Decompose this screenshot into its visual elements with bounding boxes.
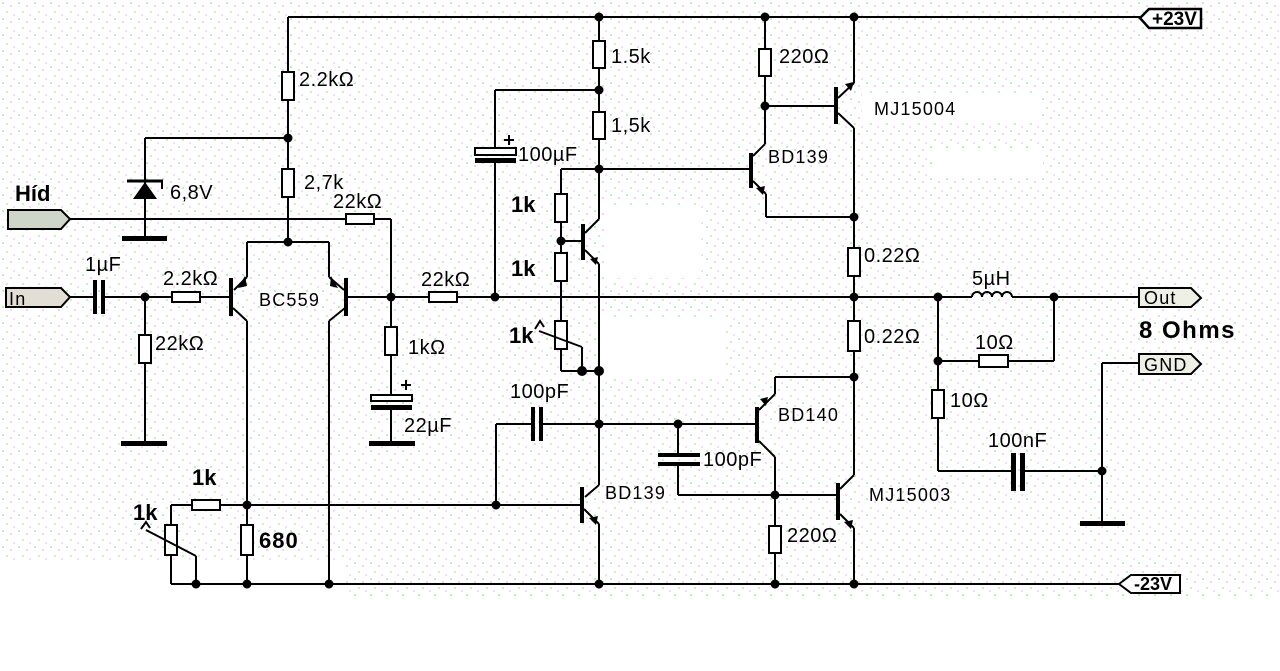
svg-text:MJ15004: MJ15004: [874, 99, 956, 119]
transistor BD140: [755, 377, 854, 495]
svg-text:MJ15003: MJ15003: [869, 485, 951, 505]
resistor 22kΩ middle: [429, 292, 972, 302]
ground bar below zener: [122, 236, 167, 241]
transistor Q3 Vbe multiplier: [561, 169, 599, 371]
resistor R 2.2kΩ (top left): [282, 17, 294, 138]
resistor 220Ω top: [759, 17, 771, 106]
capacitor 100pF feedback: [496, 407, 755, 505]
wire emitter rail BC559 pair: [247, 241, 329, 243]
resistor 1k lower: [555, 253, 567, 321]
power tag +23V: [1140, 9, 1201, 30]
resistor 0.22Ω lower: [848, 297, 860, 377]
potentiometer 1k (bottom left): [141, 505, 196, 584]
svg-text:1k: 1k: [511, 192, 536, 217]
svg-text:2.2kΩ: 2.2kΩ: [299, 69, 354, 91]
resistor 220Ω bottom: [769, 495, 781, 584]
svg-text:220Ω: 220Ω: [779, 46, 829, 68]
resistor 22kΩ input bias: [139, 297, 151, 443]
svg-text:22kΩ: 22kΩ: [333, 191, 382, 213]
ground bar below 22kΩ: [121, 441, 167, 446]
wire top +23V rail: [288, 16, 1140, 18]
wire GND branch: [1102, 363, 1139, 522]
svg-text:1k: 1k: [192, 465, 217, 490]
transistor MJ15003: [836, 377, 854, 584]
svg-text:220Ω: 220Ω: [787, 525, 837, 547]
svg-text:+23V: +23V: [1152, 9, 1197, 30]
connector tag Out: [1139, 288, 1201, 308]
svg-text:-23V: -23V: [1134, 574, 1172, 594]
resistor 1k upper: [555, 194, 567, 253]
svg-text:0.22Ω: 0.22Ω: [864, 245, 920, 267]
svg-text:8 Ohms: 8 Ohms: [1139, 317, 1236, 344]
svg-text:1.5k: 1.5k: [611, 46, 651, 68]
svg-text:22µF: 22µF: [404, 415, 452, 437]
resistor 1kΩ: [385, 297, 397, 395]
wire MJ15004 base: [765, 105, 834, 107]
resistor 1.5k: [593, 17, 605, 90]
wire Vbe emitter down: [598, 371, 600, 424]
svg-text:GND: GND: [1144, 355, 1188, 375]
wire bottom -23V rail: [171, 583, 1119, 585]
svg-text:In: In: [9, 289, 26, 309]
svg-text:Híd: Híd: [15, 181, 50, 206]
svg-text:100µF: 100µF: [518, 144, 578, 166]
transistor BD139 top driver: [749, 106, 854, 217]
svg-text:100nF: 100nF: [988, 430, 1047, 452]
wire main signal line: [391, 296, 429, 298]
svg-text:10Ω: 10Ω: [950, 390, 989, 412]
connector tag Híd: [8, 210, 70, 229]
connector tag GND: [1139, 354, 1201, 375]
resistor 1,5k: [593, 90, 605, 169]
capacitor 1µF: [70, 280, 172, 314]
transistor MJ15004: [834, 17, 854, 217]
resistor 0.22Ω upper: [848, 217, 860, 297]
resistor 1k horizontal (bottom left): [171, 500, 580, 510]
ground bar right: [1080, 521, 1125, 526]
wire node to zener: [145, 137, 288, 139]
resistor 10Ω horizontal: [938, 297, 1054, 390]
capacitor 100nF: [938, 453, 1102, 491]
svg-text:22kΩ: 22kΩ: [421, 269, 470, 291]
svg-text:0.22Ω: 0.22Ω: [864, 326, 920, 348]
transistor Q4 BD139 VAS: [580, 424, 599, 584]
wire Híd line: [70, 218, 346, 220]
svg-text:5µH: 5µH: [972, 268, 1011, 290]
connector tag In: [6, 288, 70, 309]
wire to Out: [1012, 296, 1139, 298]
svg-text:680: 680: [259, 528, 299, 553]
svg-text:Out: Out: [1144, 288, 1177, 308]
resistor 680: [241, 505, 253, 584]
transistor Q1 BC559 left: [229, 242, 247, 505]
svg-text:6,8V: 6,8V: [170, 182, 213, 204]
capacitor 22µF polar: [371, 380, 412, 442]
transistor Q2 BC559 right: [329, 242, 391, 584]
svg-text:1k: 1k: [509, 323, 534, 348]
capacitor 100µF: [475, 90, 598, 297]
potentiometer 1k middle: [535, 321, 599, 371]
svg-text:1kΩ: 1kΩ: [408, 337, 446, 359]
svg-text:1k: 1k: [133, 500, 158, 525]
resistor 10Ω vertical: [932, 390, 944, 471]
power tag -23V: [1119, 574, 1180, 594]
svg-text:1k: 1k: [511, 256, 536, 281]
ground bar below 22µF: [369, 441, 415, 446]
resistor 2.2kΩ series input: [172, 292, 229, 302]
svg-text:BC559: BC559: [259, 290, 320, 310]
svg-text:2.2kΩ: 2.2kΩ: [163, 268, 218, 290]
svg-text:BD139: BD139: [605, 483, 666, 503]
zener diode 6.8V: [127, 138, 163, 238]
capacitor 100pF VAS: [658, 424, 836, 495]
svg-text:10Ω: 10Ω: [975, 332, 1014, 354]
svg-text:BD139: BD139: [768, 147, 829, 167]
resistor 22kΩ feedback: [346, 214, 391, 297]
svg-text:100pF: 100pF: [510, 381, 569, 403]
svg-text:1µF: 1µF: [85, 254, 121, 276]
svg-text:1,5k: 1,5k: [611, 115, 651, 137]
svg-text:22kΩ: 22kΩ: [155, 333, 204, 355]
inductor 5µH: [972, 292, 1012, 297]
resistor R 2,7k: [282, 138, 294, 242]
svg-text:100pF: 100pF: [703, 449, 762, 471]
wire node to BD139 base: [561, 169, 750, 194]
svg-text:BD140: BD140: [778, 405, 839, 425]
